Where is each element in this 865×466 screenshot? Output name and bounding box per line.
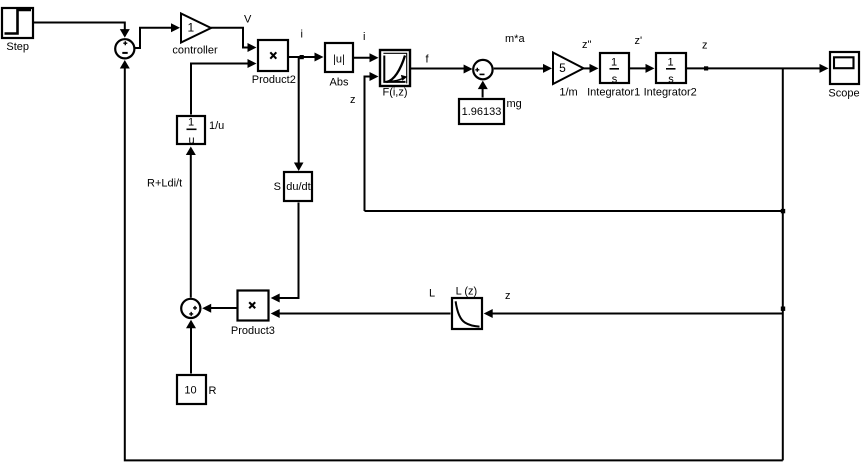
- svg-text:i: i: [301, 29, 303, 41]
- wire branch i down to du/dt: [294, 57, 304, 171]
- wire 1/m to Integrator1, node z'': [584, 64, 599, 73]
- svg-text:z': z': [635, 35, 643, 47]
- svg-text:z: z: [350, 94, 356, 106]
- junction dot z to L(z): [781, 307, 785, 311]
- gain block controller: [181, 14, 211, 43]
- wire Product2 out to Abs, node i: [289, 53, 324, 62]
- svg-text:R: R: [209, 385, 217, 397]
- svg-text:du/dt: du/dt: [286, 181, 310, 193]
- svg-text:Step: Step: [6, 41, 29, 53]
- integrator block Integrator1: [600, 53, 629, 86]
- abs block Abs: [325, 43, 353, 72]
- sum junction Sum1: [115, 39, 134, 58]
- wire F(i,z) to Sum3, node f: [411, 65, 473, 74]
- svg-text:V: V: [244, 14, 252, 26]
- junction dot on z wire: [704, 66, 708, 70]
- svg-text:R+Ldi/t: R+Ldi/t: [147, 178, 182, 190]
- wire z branch down right side: [782, 68, 784, 460]
- wire Integrator2 to Scope, node z: [687, 64, 829, 73]
- product block Product2: [258, 40, 288, 71]
- wire 1/u to Product2 input2: [191, 59, 257, 115]
- wire Step to Sum1: [33, 23, 130, 38]
- wire Sum3 to gain 1/m, node m*a: [494, 64, 552, 73]
- lookup block L(z): [452, 298, 482, 329]
- svg-text:Integrator2: Integrator2: [644, 87, 697, 99]
- junction dot on i wire: [300, 55, 304, 59]
- svg-text:u: u: [188, 134, 194, 146]
- svg-text:F(i,z): F(i,z): [382, 87, 407, 99]
- svg-text:1/m: 1/m: [559, 87, 577, 99]
- product block Product3: [238, 291, 269, 321]
- wire du/dt to Product3 input1: [271, 203, 299, 303]
- reciprocal block 1/u: [177, 116, 205, 146]
- svg-text:|u|: |u|: [333, 54, 345, 66]
- svg-text:Product3: Product3: [231, 325, 275, 337]
- wire Sum1 to controller: [135, 23, 180, 48]
- step source block Step: [2, 8, 33, 38]
- svg-text:s: s: [668, 74, 674, 86]
- sum junction Sum2: [181, 299, 200, 318]
- svg-text:1/u: 1/u: [209, 120, 224, 132]
- sum junction Sum3: [473, 60, 492, 79]
- svg-text:Scope: Scope: [828, 88, 859, 100]
- integrator block Integrator2: [656, 53, 686, 86]
- wire z to L(z) input, node z: [484, 309, 783, 318]
- svg-text:controller: controller: [172, 45, 218, 57]
- svg-text:L: L: [429, 288, 435, 300]
- svg-text:1: 1: [187, 21, 194, 35]
- svg-text:Abs: Abs: [330, 77, 349, 89]
- derivative block du/dt: [284, 172, 312, 201]
- wire z feedback to F(i,z) input2: [365, 210, 783, 212]
- svg-text:Integrator1: Integrator1: [587, 87, 640, 99]
- svg-text:5: 5: [559, 61, 566, 75]
- gain block 1/m: [553, 53, 584, 85]
- wire big feedback loop bottom: [120, 60, 783, 460]
- junction dot z feedback upper: [781, 209, 785, 213]
- svg-text:1: 1: [188, 117, 194, 129]
- svg-text:1: 1: [667, 57, 673, 69]
- wire Abs to F(i,z) input1, node i: [354, 53, 379, 62]
- wire L(z) to Product3 input2, node L: [271, 309, 451, 318]
- svg-text:L (z): L (z): [456, 286, 478, 298]
- wire z feedback into F(i,z) input2: [365, 72, 379, 211]
- function block F(i,z): [380, 50, 410, 86]
- wire Integrator1 to Integrator2, node z': [630, 64, 655, 73]
- scope block Scope: [830, 52, 859, 84]
- svg-text:1.96133: 1.96133: [462, 106, 502, 118]
- svg-text:i: i: [363, 31, 365, 43]
- svg-text:z: z: [505, 290, 511, 302]
- constant block 1.96133: [459, 99, 504, 124]
- svg-text:10: 10: [184, 385, 196, 397]
- svg-text:z: z: [702, 40, 708, 52]
- svg-text:Product2: Product2: [252, 74, 296, 86]
- wire controller to Product2 input1, node V: [211, 28, 257, 52]
- svg-text:s: s: [612, 74, 618, 86]
- wire 1.96133 to Sum3: [478, 81, 488, 98]
- constant block 10: [177, 375, 206, 404]
- svg-text:S: S: [274, 181, 281, 193]
- svg-text:m*a: m*a: [505, 33, 525, 45]
- svg-text:1: 1: [611, 57, 617, 69]
- svg-text:mg: mg: [507, 98, 522, 110]
- wire 10 to Sum2: [186, 320, 196, 374]
- svg-text:z": z": [582, 39, 592, 51]
- wire Product3 to Sum2: [202, 304, 236, 313]
- wire Sum2 up to 1/u, node R+Ldi/t: [186, 147, 196, 298]
